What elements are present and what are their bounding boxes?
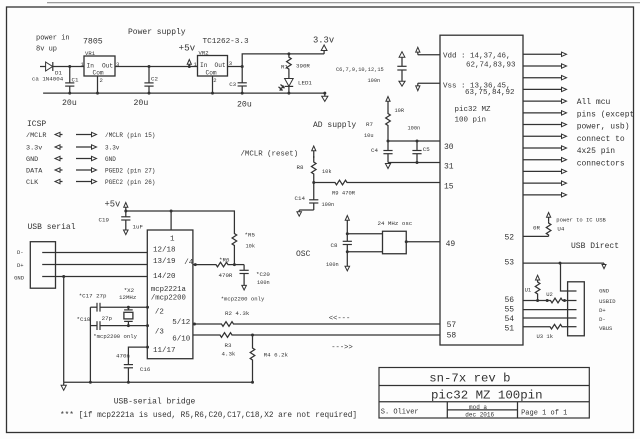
label C5 100n	[408, 126, 421, 132]
label C1 20u	[62, 99, 77, 108]
svg-text:USBID: USBID	[599, 298, 616, 305]
label VR1 Out	[102, 62, 113, 69]
diode D1	[46, 62, 70, 71]
title block divider 2	[379, 401, 589, 403]
svg-text:58: 58	[447, 332, 457, 341]
wire GND down	[63, 277, 65, 383]
pin 12/18	[153, 247, 176, 255]
resistor U3 1k	[548, 324, 564, 329]
svg-text:D-: D-	[599, 316, 606, 323]
svg-text:USB Direct: USB Direct	[571, 242, 619, 251]
power arrow U4	[547, 213, 551, 222]
node pin4	[194, 263, 197, 266]
svg-text:R4 6.2k: R4 6.2k	[264, 352, 289, 359]
node GND branch	[62, 275, 65, 278]
node osc bottom	[346, 250, 349, 253]
label U4	[557, 226, 564, 233]
title block box	[379, 368, 589, 419]
wire J1 D+	[42, 264, 147, 266]
label R8	[297, 164, 304, 171]
label mcp2200 only 1	[93, 333, 137, 340]
svg-text:pins (except: pins (except	[577, 110, 635, 119]
wire C14 to gnd	[299, 209, 314, 211]
wire power input	[40, 66, 46, 68]
svg-text:*** [if mcp2221a is used, R5,R: *** [if mcp2221a is used, R5,R6,C20,C17,…	[60, 411, 357, 420]
svg-text:OSC: OSC	[296, 250, 311, 259]
label C6 100n	[368, 78, 381, 84]
label mcp2200 only 2	[221, 296, 265, 303]
pin 2 VR2	[213, 77, 216, 84]
pin 2 VR1	[100, 77, 103, 84]
svg-text:10R: 10R	[395, 108, 405, 114]
svg-text:U3 1k: U3 1k	[537, 333, 554, 340]
svg-text:*C18: *C18	[77, 316, 91, 323]
IC U5 pic32MZ box	[440, 35, 523, 345]
capacitor C16	[124, 363, 133, 383]
node C5 top	[416, 140, 419, 143]
svg-text:2: 2	[213, 77, 216, 84]
svg-text:56: 56	[505, 296, 515, 305]
svg-text:dec 2016: dec 2016	[465, 411, 494, 418]
label J2 D-	[599, 316, 606, 323]
wire MCLR to R9	[314, 182, 329, 184]
wire pin53 down	[561, 263, 577, 291]
resistor R7 10R	[386, 108, 391, 141]
wire R9 to pin15	[353, 182, 440, 184]
svg-text:+5v: +5v	[105, 200, 121, 210]
title Page 1 of 1	[521, 410, 567, 418]
label R2 4.3k	[225, 310, 250, 317]
label mcp2200	[151, 295, 186, 303]
wire U2 to box	[563, 300, 577, 302]
wire C18 to box	[128, 325, 147, 327]
label 10u	[364, 133, 374, 139]
svg-text:R9 470R: R9 470R	[332, 190, 356, 197]
ground rail power	[43, 92, 325, 94]
label C14	[295, 195, 306, 202]
label ca 1N4004	[32, 76, 64, 83]
label C19	[99, 217, 110, 224]
USB serial connector J1	[30, 242, 55, 289]
pin 11/17	[153, 347, 176, 355]
node pin53	[559, 262, 562, 265]
label D1	[55, 70, 62, 77]
node MCLR	[312, 181, 315, 184]
svg-text:55: 55	[505, 306, 515, 315]
label J1 D-	[17, 249, 24, 256]
svg-text:10u: 10u	[364, 133, 374, 139]
wire pin52	[523, 235, 549, 237]
svg-text:49: 49	[446, 240, 456, 249]
svg-text:C14: C14	[295, 195, 306, 202]
svg-text:U2: U2	[546, 291, 553, 298]
wire J1 D-	[42, 252, 147, 254]
svg-text:VBUS: VBUS	[599, 325, 613, 332]
node pin2	[146, 306, 149, 309]
wire Vdd	[418, 54, 440, 56]
node osc out	[405, 240, 408, 243]
svg-text:6/10: 6/10	[172, 336, 191, 344]
ground rail usb	[64, 381, 253, 383]
node U1 bottom	[536, 299, 539, 302]
svg-text:12/18: 12/18	[153, 247, 176, 255]
svg-text:100n: 100n	[257, 280, 270, 286]
resistor U2	[550, 298, 563, 303]
wire osc bottom	[347, 251, 382, 253]
title mod a	[469, 404, 487, 411]
node U2 left	[546, 299, 549, 302]
svg-text:10k: 10k	[246, 244, 256, 250]
svg-text:PGED2 (pin 27): PGED2 (pin 27)	[105, 168, 155, 175]
label U2	[546, 291, 553, 298]
node R3 R4	[251, 334, 254, 337]
svg-text:7805: 7805	[83, 38, 103, 47]
svg-text:U1: U1	[525, 286, 532, 293]
label J1 GND	[14, 274, 25, 281]
wire +5v rail	[126, 211, 235, 227]
svg-text:*mcp2200 only: *mcp2200 only	[93, 333, 137, 340]
svg-text:30: 30	[444, 143, 454, 152]
resistor R2 4.3k	[215, 322, 240, 327]
ground symbol osc	[345, 266, 350, 271]
svg-text:/MCLR: /MCLR	[26, 132, 46, 140]
node C2 top	[148, 65, 151, 95]
capacitor C5	[412, 141, 421, 163]
svg-text:Page 1 of 1: Page 1 of 1	[521, 410, 567, 418]
ground symbol C14	[297, 210, 302, 216]
pin 13/19	[153, 258, 176, 266]
node pin1 rail	[170, 210, 173, 213]
label C20	[256, 271, 270, 278]
svg-text:D+: D+	[599, 307, 606, 314]
label R5	[245, 232, 256, 239]
resistor U1	[535, 282, 540, 301]
ground symbol cap bottom	[399, 81, 405, 86]
label R5 10k	[246, 244, 256, 250]
label C3	[229, 81, 236, 88]
power arrow +5v usb	[124, 203, 128, 212]
node C19 top	[124, 210, 127, 213]
node U2 right	[563, 299, 566, 302]
svg-text:power in: power in	[36, 35, 70, 43]
wire J1 GND	[42, 276, 147, 278]
svg-text:C3: C3	[229, 81, 236, 88]
label VR1 Com	[93, 70, 104, 77]
svg-text:power to IC USB: power to IC USB	[556, 217, 606, 224]
wire pin1	[170, 211, 172, 230]
wire xtal left bus	[89, 307, 91, 382]
oscillator X1 box	[383, 231, 407, 254]
capacitor C6-C15	[397, 66, 406, 81]
svg-text:ca 1N4004: ca 1N4004	[32, 76, 64, 83]
svg-text:15: 15	[444, 183, 454, 192]
capacitor C19	[121, 211, 130, 230]
title USB-serial bridge	[114, 398, 196, 407]
svg-text:C5: C5	[423, 146, 430, 153]
svg-text:/4: /4	[184, 259, 194, 267]
resistor U4 0R	[546, 222, 551, 237]
label 7805	[83, 38, 103, 47]
resistor R4 6.2k	[250, 335, 255, 382]
ground symbol C4	[385, 164, 390, 169]
pin 3 VR2	[229, 60, 232, 67]
label 3.3v top right	[313, 36, 334, 46]
arrow pin53 right	[602, 263, 606, 269]
label VR1	[85, 50, 96, 57]
title dec 2016	[465, 411, 494, 418]
wire pin31	[388, 162, 440, 164]
svg-text:100n: 100n	[368, 78, 381, 84]
label R9 470R	[332, 190, 356, 197]
title block divider v1	[446, 402, 448, 418]
label mcp2221a	[151, 286, 187, 294]
pin 49	[446, 240, 456, 249]
wire osc out to pin49	[406, 241, 440, 243]
wire R5 to node	[233, 252, 235, 265]
svg-text:C2: C2	[151, 76, 158, 83]
node pin11 17	[146, 346, 149, 349]
node rail end	[323, 92, 326, 95]
label C1	[72, 77, 79, 84]
pin 6/10	[172, 336, 191, 344]
wire pin54	[523, 317, 577, 319]
label C2 20u	[134, 99, 149, 108]
label all mcu pins	[577, 98, 635, 169]
label arrow left	[329, 315, 351, 323]
wire pin5 12	[193, 323, 215, 325]
label C8 100n	[326, 262, 339, 268]
svg-text:In: In	[87, 62, 95, 69]
pin 1 label	[170, 236, 175, 244]
svg-text:U4: U4	[557, 226, 564, 233]
label 12MHz	[119, 294, 137, 301]
label R6 470R	[219, 272, 233, 279]
svg-text:Vdd : 14,37,46,: Vdd : 14,37,46,	[443, 53, 511, 61]
wire U3 to box	[564, 326, 577, 328]
svg-text:1: 1	[170, 236, 175, 244]
capacitor C4	[383, 141, 392, 163]
svg-text:R2 4.3k: R2 4.3k	[225, 310, 250, 317]
node D1-C1	[68, 65, 71, 68]
label VR2 Com	[206, 69, 217, 76]
label R6	[219, 257, 230, 264]
power arrow R8	[312, 146, 316, 158]
label TC1262-3.3	[203, 38, 250, 46]
svg-text:31: 31	[444, 163, 454, 172]
svg-text:TC1262-3.3: TC1262-3.3	[203, 38, 250, 46]
pin 30	[444, 143, 454, 152]
label 0R	[533, 225, 540, 232]
pin 5/12	[172, 319, 190, 327]
regulator VR2 TC1262	[198, 56, 228, 77]
label U1	[525, 286, 532, 293]
ICSP left arrows	[55, 132, 63, 183]
svg-text:--->>: --->>	[331, 344, 353, 352]
label J2 D+	[599, 307, 606, 314]
IC U6 mcp2221a box	[147, 230, 193, 359]
svg-text:*mcp2200 only: *mcp2200 only	[221, 296, 265, 303]
label +5v usb	[105, 200, 121, 210]
svg-text:470n: 470n	[116, 353, 130, 360]
node rail R4	[251, 381, 254, 384]
pin 58	[447, 332, 457, 341]
svg-text:C4: C4	[371, 147, 378, 154]
ground symbol C19	[124, 230, 129, 235]
svg-text:27p: 27p	[102, 315, 113, 322]
pin 3 VR1	[116, 61, 119, 68]
label USB Direct	[571, 242, 619, 251]
node C3 rail	[241, 92, 244, 95]
power arrow Vdd	[416, 47, 420, 54]
svg-text:4x25 pin: 4x25 pin	[577, 147, 616, 156]
svg-text:/MCLR (pin 15): /MCLR (pin 15)	[105, 132, 155, 139]
label OSC	[296, 250, 311, 259]
label Vdd pins2	[466, 61, 516, 69]
ICSP right arrows	[76, 132, 97, 183]
svg-text:R3: R3	[225, 342, 232, 349]
svg-text:GND: GND	[105, 156, 116, 163]
svg-text:VR1: VR1	[85, 50, 96, 57]
title Power supply	[128, 28, 186, 37]
svg-text:14/20: 14/20	[153, 273, 176, 281]
wire VR1 com to rail	[97, 76, 99, 93]
svg-text:In: In	[200, 62, 208, 69]
label U3 1k	[537, 333, 554, 340]
svg-text:5/12: 5/12	[172, 319, 190, 327]
wire pin51	[523, 326, 548, 328]
svg-text:mod a: mod a	[469, 404, 487, 411]
svg-text:pic32 MZ: pic32 MZ	[455, 106, 492, 114]
svg-text:R7: R7	[366, 121, 373, 128]
capacitor C17	[90, 303, 128, 312]
svg-text:PGEC2 (pin 26): PGEC2 (pin 26)	[105, 179, 155, 186]
svg-text:ICSP: ICSP	[27, 120, 46, 129]
capacitor C14	[309, 183, 318, 211]
power arrow Vss down	[416, 83, 420, 91]
pin 14/20	[153, 273, 176, 281]
svg-text:C16: C16	[140, 366, 151, 373]
label C20 100n	[257, 280, 270, 286]
svg-text:D+: D+	[17, 262, 24, 269]
svg-text:/2: /2	[155, 309, 164, 317]
power arrow R7	[386, 97, 390, 109]
label 1uF	[133, 224, 144, 231]
pin 15	[444, 183, 454, 192]
svg-text:3.3v: 3.3v	[105, 145, 120, 152]
node VR2 com rail	[211, 92, 214, 95]
svg-text:pic32 MZ 100pin: pic32 MZ 100pin	[431, 389, 543, 403]
label 10R	[395, 108, 405, 114]
node pin5 12	[193, 323, 196, 326]
label 100 pin	[455, 117, 487, 125]
svg-text:0R: 0R	[533, 225, 540, 232]
svg-text:C1: C1	[72, 77, 79, 84]
svg-text:GND: GND	[599, 288, 610, 295]
label C8	[331, 242, 338, 249]
label MCLR reset	[241, 150, 299, 158]
resistor R6 470R	[213, 262, 231, 267]
svg-text:*X2: *X2	[124, 287, 135, 294]
svg-text:R8: R8	[297, 164, 304, 171]
svg-text:USB serial: USB serial	[28, 223, 76, 232]
svg-text:*R6: *R6	[219, 257, 230, 264]
svg-text:GND: GND	[26, 156, 38, 164]
label C2	[151, 76, 158, 83]
label C14 100n	[322, 202, 335, 208]
node xtal bus gnd	[89, 381, 92, 384]
svg-text:100n: 100n	[326, 262, 339, 268]
wire 3.3v riser	[242, 54, 324, 67]
wire R6 node	[231, 264, 244, 266]
node C16 gnd	[127, 381, 130, 384]
node osc top	[346, 232, 349, 235]
wire pin11 17	[128, 347, 147, 363]
resistor R9 470R	[329, 180, 353, 185]
svg-text:connect to: connect to	[577, 135, 625, 144]
svg-text:62,74,83,93: 62,74,83,93	[466, 61, 516, 69]
wire pin30	[388, 140, 440, 142]
wire osc gnd	[346, 252, 348, 267]
title block divider mid	[447, 409, 517, 411]
node R7 C4	[387, 140, 390, 143]
wire pin56	[523, 300, 550, 302]
svg-text:CLK: CLK	[26, 179, 39, 187]
label C18 27p	[102, 315, 113, 322]
svg-text:C6,7,9,10,12,15: C6,7,9,10,12,15	[336, 67, 384, 73]
label C16	[140, 366, 151, 373]
svg-text:52: 52	[505, 234, 515, 243]
capacitor C20	[240, 265, 249, 286]
resistor R3 4.3k	[214, 333, 238, 338]
label R1	[281, 63, 288, 70]
label Vss pins	[443, 83, 511, 91]
wire VR1 out to VR2	[115, 66, 198, 68]
label VR1 In	[87, 62, 95, 69]
pin 57	[447, 321, 457, 330]
resistor R1 390R	[287, 54, 292, 79]
pin /4	[184, 259, 194, 267]
capacitor C8	[343, 234, 352, 252]
svg-text:Out: Out	[215, 62, 226, 69]
svg-text:8v up: 8v up	[36, 46, 57, 54]
svg-text:LED1: LED1	[298, 79, 312, 86]
node xtal top	[127, 306, 130, 309]
svg-text:/MCLR (reset): /MCLR (reset)	[241, 150, 299, 158]
svg-text:100n: 100n	[322, 202, 335, 208]
wire R3 to pin58	[238, 334, 440, 336]
pin /3	[155, 328, 165, 336]
label 390R	[296, 63, 310, 70]
pin 53	[505, 259, 515, 268]
node R5 R6 C20	[233, 263, 236, 266]
ground symbol C20	[242, 285, 247, 290]
label Vdd pins	[443, 53, 511, 61]
label R8 10k	[322, 169, 332, 175]
svg-text:<<---: <<---	[329, 315, 351, 323]
svg-text:Out: Out	[102, 62, 113, 69]
label R3	[225, 342, 232, 349]
scan edge line top	[47, 2, 640, 4]
power symbol cap top	[399, 52, 405, 67]
title sn-7x rev b	[429, 372, 510, 386]
title S. Oliver	[381, 409, 419, 417]
svg-text:Com: Com	[206, 69, 217, 76]
title block divider v2	[517, 402, 519, 418]
label J1 D+	[17, 262, 24, 269]
label power to IC USB	[556, 217, 606, 224]
pin 1 VR2	[194, 61, 198, 68]
svg-text:53: 53	[505, 259, 515, 268]
